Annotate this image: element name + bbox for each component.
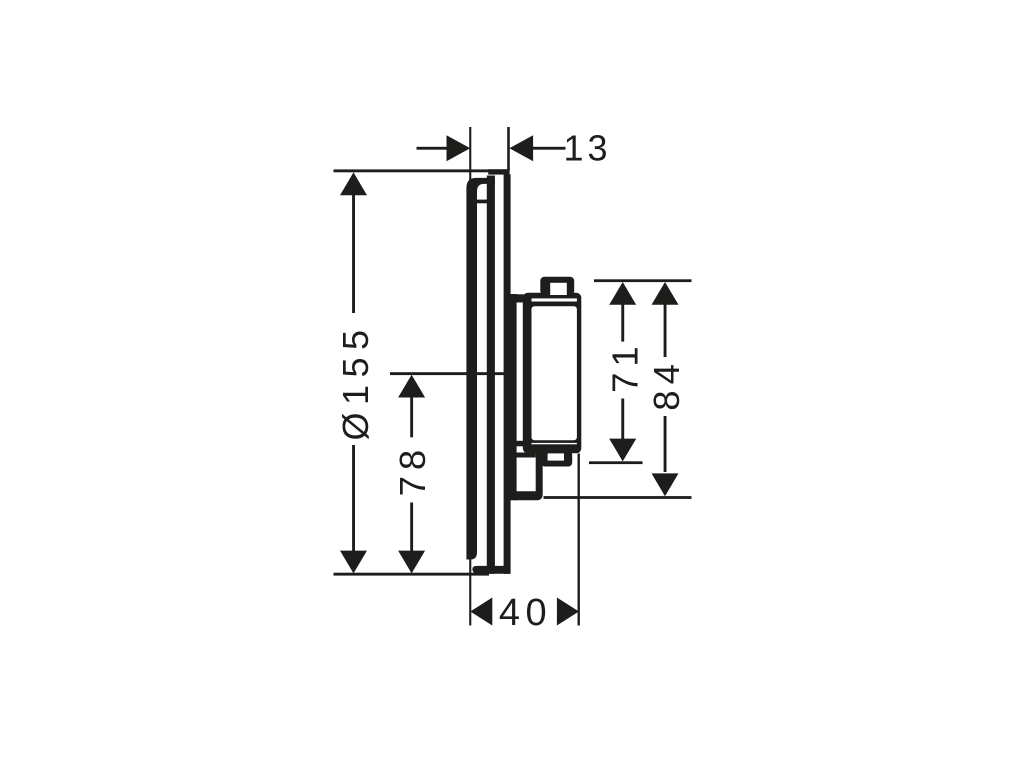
escutcheon front plate top cap (488, 169, 509, 174)
dimension 78 down arrow (398, 551, 425, 574)
dimension O155 lower shaft (352, 445, 355, 553)
svg-text:13: 13 (563, 128, 611, 169)
dimension 71 up arrow (609, 282, 636, 305)
svg-text:40: 40 (499, 592, 552, 634)
dimension 40 left arrow (points left) (470, 598, 492, 626)
dimension 78 upper shaft (410, 396, 413, 437)
escutcheon back shell inner step (477, 200, 487, 204)
svg-text:Ø155: Ø155 (335, 322, 376, 440)
dimension 71 upper shaft (621, 304, 624, 342)
handle spindle top knob (540, 277, 574, 295)
dimension 84 upper shaft (664, 304, 667, 358)
extension line: 40 left (469, 560, 471, 626)
svg-text:71: 71 (604, 340, 645, 393)
dimension 13 left arrow (points right) (447, 135, 471, 161)
dimension 13 right leader (533, 147, 566, 150)
upper mounting lip (516, 294, 523, 302)
bottom knob (541, 451, 572, 467)
svg-text:78: 78 (392, 444, 433, 497)
dimension 40 right arrow (points right) (557, 598, 579, 626)
dimension O155 up arrow (340, 172, 367, 195)
dimension 71 down arrow (609, 439, 636, 462)
lower mounting lip (516, 441, 523, 447)
bottom knob interior (white) (548, 453, 564, 460)
cartridge flange band in front of plate (511, 294, 517, 500)
dimension 78 lower shaft (410, 503, 413, 553)
dimension 71 lower shaft (621, 399, 624, 441)
lower spigot top band (515, 453, 536, 458)
dimension O155 upper shaft (352, 194, 355, 313)
escutcheon front plate bottom cap (472, 566, 510, 574)
extension line: 40 right (578, 454, 580, 626)
handle spindle top knob interior (white) (550, 283, 567, 295)
dimension 84 lower shaft (664, 416, 667, 472)
escutcheon front plate left wall (487, 176, 495, 574)
extension line: 13 left (469, 127, 471, 187)
dimension 84 up arrow (652, 282, 679, 305)
extension line: cartridge top (for 71 / 84) (594, 279, 692, 282)
cartridge housing top sliver (white) (532, 298, 577, 301)
cartridge housing outer box (523, 293, 582, 454)
dimension 78 up arrow (398, 375, 425, 398)
extension line: 13 right (507, 127, 510, 171)
extension line: plate top edge (for O155) (334, 169, 490, 172)
dimension 84 down arrow (652, 473, 679, 496)
escutcheon front plate face line (504, 174, 511, 574)
dimension 13 left leader (417, 147, 448, 150)
dimension O155 down arrow (340, 551, 367, 574)
dimension 13 right arrow (points left) (509, 135, 533, 161)
escutcheon back shell (wall-side): left wall + rounded top band (466, 178, 495, 560)
extension line: cartridge bottom (for 71) (589, 461, 643, 464)
extension line: plate bottom edge (for O155 / 78) (334, 573, 490, 576)
extension line: plate center line (for 78) (390, 372, 509, 375)
extension line: lower spigot bottom (for 84) (544, 496, 692, 499)
svg-text:84: 84 (646, 358, 687, 411)
cartridge housing bottom sliver (white) (532, 443, 577, 444)
lower spigot (L-shaped outlet) (515, 451, 543, 500)
cartridge housing interior (white) (532, 306, 577, 440)
